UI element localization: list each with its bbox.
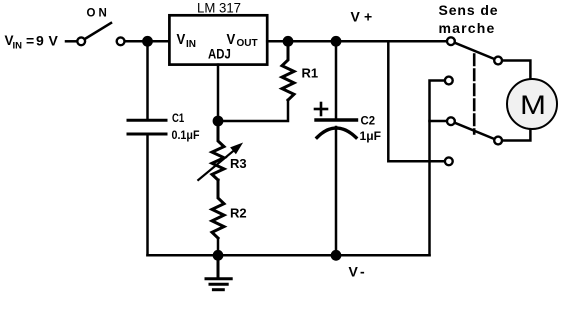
svg-text:R1: R1 <box>302 65 319 80</box>
svg-text:M: M <box>520 90 546 120</box>
pin label VOUT <box>227 31 258 49</box>
switch S2 pole 2 <box>494 137 502 145</box>
switch S1 terminal a <box>77 37 85 45</box>
svg-text:IN: IN <box>186 39 196 50</box>
potentiometer R3 <box>212 121 224 180</box>
svg-text:marche: marche <box>439 20 496 36</box>
wire ADJ node to R1 bottom <box>218 100 288 121</box>
wire R3 to R2 <box>217 180 220 198</box>
net label V- <box>349 264 366 280</box>
svg-text:R3: R3 <box>230 156 247 171</box>
wire input node down to C1 <box>146 41 149 120</box>
svg-text:C1: C1 <box>172 111 184 125</box>
capacitor C1 <box>128 120 166 134</box>
node ground junction <box>213 250 224 261</box>
wire ground rail V- <box>148 254 430 257</box>
svg-text:V: V <box>351 9 361 25</box>
switch S1 terminal b <box>117 37 125 45</box>
svg-text:Sens de: Sens de <box>439 2 499 18</box>
wire V- riser to switch terminals 2 and 3 <box>430 81 446 256</box>
capacitor C2 polarity + <box>315 103 327 115</box>
capacitor C2 <box>316 120 357 138</box>
svg-text:+: + <box>364 9 372 25</box>
switch S2 mechanical link (dashed) <box>473 55 476 134</box>
svg-text:V: V <box>177 31 186 48</box>
switch S1 lever (ON switch) <box>84 23 111 40</box>
resistor R1 <box>282 41 294 100</box>
wire switch S1 to U1 VIN pin <box>125 40 170 43</box>
ground <box>206 255 231 289</box>
svg-text:V: V <box>349 264 359 280</box>
node input junction <box>142 36 153 47</box>
wire C2 bottom to ground rail <box>335 127 338 255</box>
motor M1 <box>507 79 557 129</box>
svg-text:OUT: OUT <box>237 38 258 49</box>
switch S2 terminal 1 <box>447 37 455 45</box>
node ADJ junction <box>213 116 224 127</box>
svg-text:0.1μF: 0.1μF <box>172 130 200 142</box>
wire ADJ node down to R3 <box>217 121 220 141</box>
wire stub to switch terminal 3 <box>430 120 448 123</box>
wire pole 2 to motor <box>498 128 530 141</box>
potentiometer R3 arrow <box>198 143 243 181</box>
wire R2 down to ground rail <box>217 238 220 255</box>
regulator U1 LM317 <box>169 15 267 64</box>
switch S2 pole 1 <box>494 57 502 65</box>
switch S2 terminal 4 <box>445 157 453 165</box>
svg-text:LM 317: LM 317 <box>197 0 241 16</box>
switch S2 terminal 3 <box>447 117 455 125</box>
pin U1 ADJ wire <box>217 65 220 121</box>
switch S2 label Sens de marche <box>439 2 499 36</box>
pin label VIN <box>177 31 197 50</box>
wire pole 1 to motor <box>498 61 530 81</box>
switch S2 lever 1 <box>451 41 498 60</box>
node VOUT R1 junction <box>283 36 294 47</box>
net label V+ <box>351 9 373 25</box>
wire C2 top <box>335 41 338 120</box>
svg-text:ON: ON <box>87 8 110 20</box>
svg-text:9: 9 <box>36 33 44 49</box>
node VOUT C2 junction <box>331 36 342 47</box>
svg-text:-: - <box>360 264 365 280</box>
node VIN label VIN=9V <box>5 33 59 52</box>
wire VIN stub to switch S1 <box>66 40 78 43</box>
svg-text:C2: C2 <box>361 114 376 128</box>
switch S2 lever 2 <box>451 121 498 140</box>
resistor R2 <box>212 180 224 238</box>
svg-text:R2: R2 <box>230 206 247 221</box>
wire VOUT rail to direction switch <box>267 40 447 43</box>
wire C1 down to ground rail <box>146 134 149 255</box>
svg-text:1μF: 1μF <box>360 131 382 143</box>
svg-text:V: V <box>49 33 59 49</box>
svg-text:=: = <box>26 33 34 49</box>
node V- junction <box>331 250 342 261</box>
wire V+ drop to switch terminal 4 <box>388 41 445 161</box>
switch S2 terminal 2 <box>445 77 453 85</box>
svg-text:ADJ: ADJ <box>208 45 231 61</box>
svg-text:IN: IN <box>13 41 23 52</box>
